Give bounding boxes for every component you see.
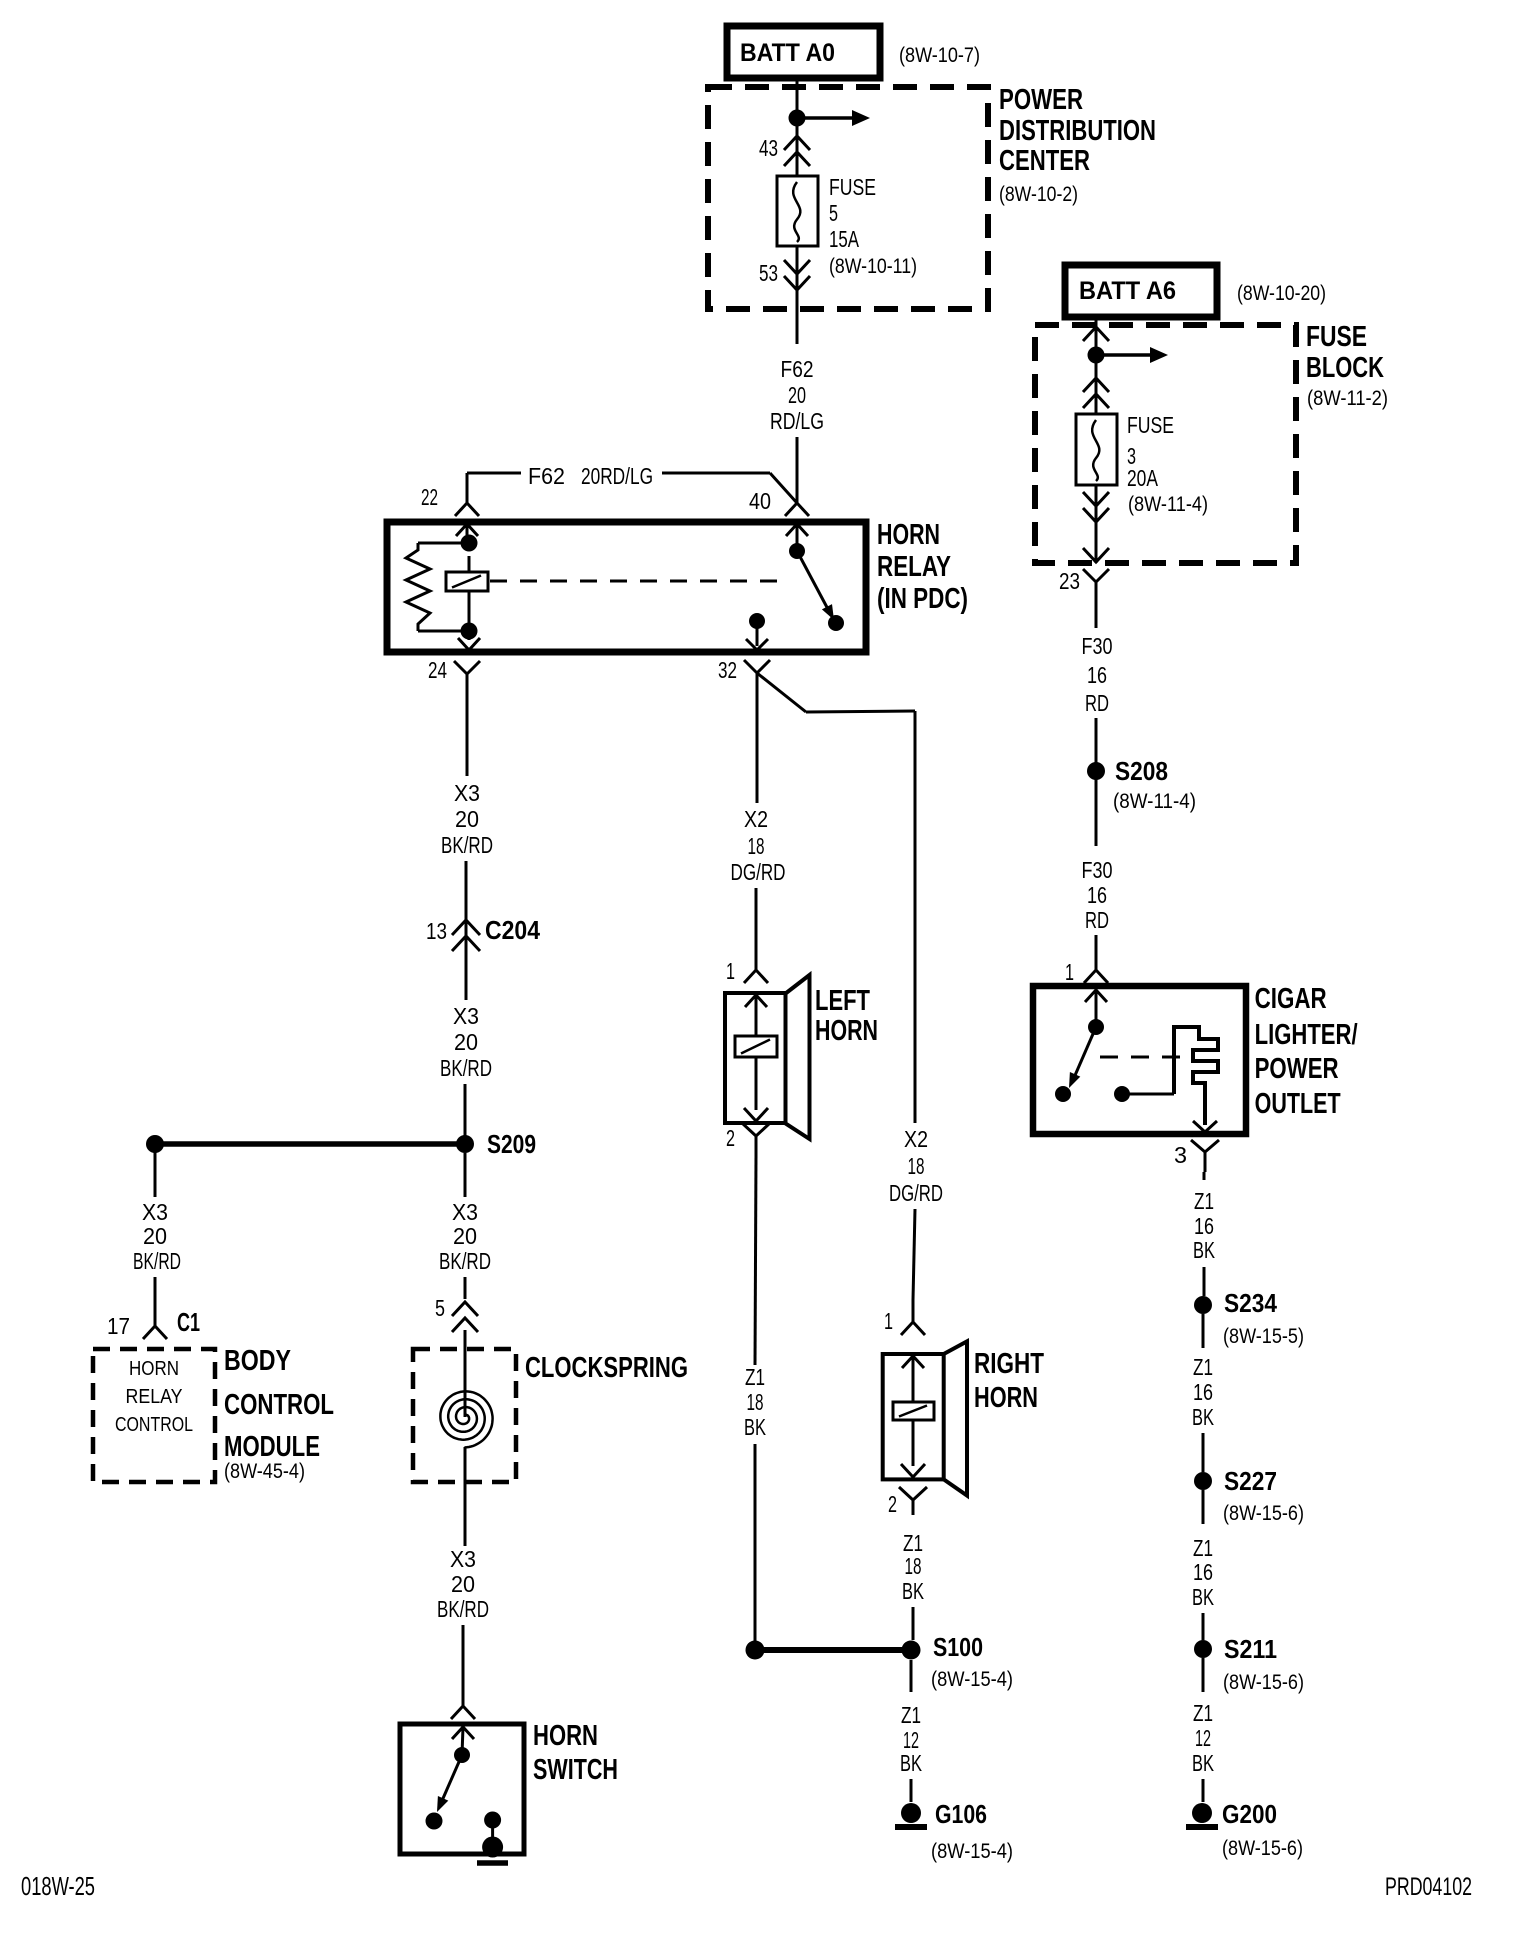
svg-text:BODY: BODY	[224, 1345, 291, 1377]
svg-text:F62: F62	[781, 356, 814, 382]
svg-text:20RD/LG: 20RD/LG	[581, 463, 653, 489]
svg-text:Z1: Z1	[1193, 1354, 1213, 1380]
svg-text:(8W-15-6): (8W-15-6)	[1223, 1671, 1304, 1694]
svg-text:3: 3	[1174, 1142, 1187, 1168]
svg-text:HORN: HORN	[815, 1015, 878, 1047]
svg-text:18: 18	[905, 1553, 922, 1579]
svg-text:(8W-10-11): (8W-10-11)	[829, 255, 917, 278]
svg-text:43: 43	[759, 135, 778, 161]
svg-text:5: 5	[829, 200, 838, 226]
svg-text:RIGHT: RIGHT	[974, 1348, 1044, 1380]
svg-text:RD/LG: RD/LG	[770, 408, 824, 434]
svg-text:15A: 15A	[829, 226, 859, 252]
svg-text:1: 1	[726, 958, 735, 984]
svg-text:20: 20	[143, 1223, 167, 1249]
svg-text:CONTROL: CONTROL	[224, 1389, 334, 1421]
svg-text:S234: S234	[1224, 1288, 1277, 1318]
svg-text:BK/RD: BK/RD	[440, 1055, 492, 1081]
svg-text:(8W-15-4): (8W-15-4)	[931, 1668, 1013, 1691]
svg-text:DISTRIBUTION: DISTRIBUTION	[999, 115, 1156, 147]
svg-text:Z1: Z1	[1194, 1188, 1214, 1214]
svg-text:(8W-15-5): (8W-15-5)	[1223, 1325, 1304, 1348]
svg-text:RD: RD	[1085, 690, 1109, 716]
svg-text:LEFT: LEFT	[815, 985, 870, 1017]
svg-text:RELAY: RELAY	[126, 1386, 183, 1408]
svg-text:17: 17	[107, 1313, 130, 1339]
svg-text:(8W-15-6): (8W-15-6)	[1222, 1837, 1303, 1860]
svg-text:53: 53	[759, 260, 778, 286]
svg-text:BK: BK	[1193, 1237, 1215, 1263]
svg-text:X2: X2	[904, 1126, 928, 1152]
svg-text:X3: X3	[454, 780, 480, 806]
svg-text:5: 5	[435, 1295, 445, 1321]
svg-text:Z1: Z1	[901, 1702, 921, 1728]
svg-text:(8W-11-4): (8W-11-4)	[1128, 493, 1208, 516]
svg-text:OUTLET: OUTLET	[1255, 1088, 1341, 1120]
svg-text:24: 24	[428, 657, 447, 683]
svg-text:F30: F30	[1082, 633, 1113, 659]
svg-text:BK/RD: BK/RD	[441, 832, 493, 858]
svg-text:16: 16	[1087, 662, 1107, 688]
svg-text:1: 1	[884, 1308, 893, 1334]
svg-text:(8W-11-4): (8W-11-4)	[1113, 790, 1196, 813]
svg-text:G200: G200	[1222, 1799, 1277, 1829]
svg-text:DG/RD: DG/RD	[889, 1180, 943, 1206]
svg-text:LIGHTER/: LIGHTER/	[1255, 1019, 1358, 1051]
svg-text:S208: S208	[1115, 756, 1168, 786]
svg-text:BK/RD: BK/RD	[439, 1248, 491, 1274]
svg-text:018W-25: 018W-25	[21, 1871, 95, 1901]
svg-text:X3: X3	[142, 1199, 168, 1225]
svg-text:40: 40	[749, 488, 771, 514]
svg-text:BK: BK	[1192, 1404, 1214, 1430]
svg-text:CLOCKSPRING: CLOCKSPRING	[525, 1352, 688, 1384]
svg-text:POWER: POWER	[1255, 1053, 1339, 1085]
svg-text:20A: 20A	[1127, 465, 1158, 491]
svg-text:(8W-11-2): (8W-11-2)	[1307, 387, 1388, 410]
svg-text:20: 20	[451, 1571, 475, 1597]
svg-text:G106: G106	[935, 1799, 987, 1829]
svg-text:2: 2	[726, 1125, 735, 1151]
svg-text:F30: F30	[1082, 857, 1113, 883]
svg-text:BK: BK	[902, 1578, 924, 1604]
svg-text:RELAY: RELAY	[877, 551, 951, 583]
svg-text:BLOCK: BLOCK	[1306, 352, 1384, 384]
svg-text:HORN: HORN	[533, 1720, 598, 1752]
svg-text:BK: BK	[744, 1414, 766, 1440]
svg-text:FUSE: FUSE	[1306, 321, 1367, 353]
svg-text:POWER: POWER	[999, 84, 1083, 116]
svg-text:X3: X3	[452, 1199, 478, 1225]
svg-text:S227: S227	[1224, 1466, 1277, 1496]
svg-text:CENTER: CENTER	[999, 145, 1090, 177]
svg-text:20: 20	[788, 382, 806, 408]
svg-text:S100: S100	[933, 1632, 983, 1662]
svg-text:(8W-10-20): (8W-10-20)	[1237, 282, 1326, 305]
svg-text:HORN: HORN	[974, 1382, 1038, 1414]
svg-text:13: 13	[426, 918, 447, 944]
svg-text:(8W-15-6): (8W-15-6)	[1223, 1502, 1304, 1525]
svg-text:16: 16	[1087, 882, 1107, 908]
svg-text:CIGAR: CIGAR	[1255, 983, 1327, 1015]
svg-text:CONTROL: CONTROL	[115, 1414, 193, 1436]
svg-text:Z1: Z1	[1193, 1700, 1213, 1726]
svg-text:Z1: Z1	[1193, 1535, 1213, 1561]
svg-text:DG/RD: DG/RD	[731, 859, 786, 885]
svg-text:22: 22	[421, 484, 438, 510]
svg-text:X2: X2	[744, 806, 768, 832]
svg-text:23: 23	[1059, 568, 1080, 594]
svg-text:(8W-10-2): (8W-10-2)	[999, 183, 1078, 206]
svg-text:2: 2	[888, 1491, 897, 1517]
svg-text:HORN: HORN	[129, 1358, 179, 1380]
svg-text:(IN PDC): (IN PDC)	[877, 583, 968, 615]
svg-text:X3: X3	[450, 1546, 476, 1572]
svg-text:F62: F62	[528, 463, 565, 489]
svg-text:20: 20	[453, 1223, 477, 1249]
svg-text:20: 20	[455, 806, 479, 832]
svg-text:(8W-15-4): (8W-15-4)	[931, 1840, 1013, 1863]
svg-text:MODULE: MODULE	[224, 1431, 320, 1463]
svg-text:16: 16	[1193, 1559, 1213, 1585]
svg-text:18: 18	[748, 833, 765, 859]
svg-text:BK: BK	[1192, 1584, 1214, 1610]
svg-text:16: 16	[1193, 1379, 1213, 1405]
svg-text:SWITCH: SWITCH	[533, 1754, 618, 1786]
svg-text:C1: C1	[177, 1307, 200, 1337]
svg-text:18: 18	[908, 1153, 925, 1179]
svg-text:FUSE: FUSE	[1127, 412, 1174, 438]
svg-text:C204: C204	[485, 915, 540, 945]
svg-text:BK: BK	[1192, 1750, 1214, 1776]
svg-text:1: 1	[1065, 959, 1074, 985]
svg-text:HORN: HORN	[877, 519, 940, 551]
svg-text:(8W-45-4): (8W-45-4)	[224, 1460, 305, 1483]
svg-text:32: 32	[718, 657, 737, 683]
svg-text:BATT A0: BATT A0	[740, 39, 835, 67]
svg-text:16: 16	[1194, 1213, 1214, 1239]
svg-text:BK/RD: BK/RD	[133, 1248, 181, 1274]
svg-text:18: 18	[747, 1389, 764, 1415]
svg-text:(8W-10-7): (8W-10-7)	[899, 44, 980, 67]
svg-text:20: 20	[454, 1029, 478, 1055]
svg-text:BK/RD: BK/RD	[437, 1596, 489, 1622]
svg-text:PRD04102: PRD04102	[1385, 1873, 1472, 1901]
svg-text:BATT A6: BATT A6	[1079, 277, 1176, 305]
svg-text:FUSE: FUSE	[829, 174, 876, 200]
svg-text:12: 12	[1195, 1725, 1211, 1751]
svg-text:BK: BK	[900, 1750, 922, 1776]
svg-text:S209: S209	[487, 1129, 536, 1159]
svg-text:Z1: Z1	[745, 1364, 765, 1390]
svg-text:X3: X3	[453, 1003, 479, 1029]
svg-text:S211: S211	[1224, 1634, 1277, 1664]
svg-text:RD: RD	[1085, 907, 1109, 933]
